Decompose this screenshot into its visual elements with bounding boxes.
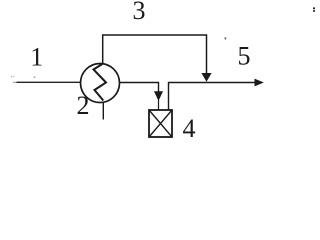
arrowhead: product stream 5 [255,79,264,87]
wire: exchanger bottom coolant stub [102,102,104,119]
svg-text:2: 2 [77,91,90,120]
label 4 (unit number) [183,114,196,143]
svg-text:1: 1 [30,43,43,72]
label 3 (stream number) [133,0,146,25]
svg-text:4: 4 [183,114,196,141]
arrowhead: stream 3 joining product line [201,73,211,82]
wire: exchanger outlet to drop into unit 4 [120,83,159,93]
wire: unit 4 outlet riser and product line 5 [169,83,257,111]
svg-text:3: 3 [133,0,146,25]
wire: stream 3 recycle (exchanger top, up, right, down) [103,35,207,75]
heat exchanger 2: circle body [81,64,120,103]
arrowhead: feed into unit 4 [154,91,163,101]
label 1 (stream number) [30,43,43,72]
specks near stream 1 start [11,76,35,78]
label 2 (exchanger number) [77,91,90,120]
speck artifact near line 3 [225,37,227,39]
unit 4: box with X [149,110,172,137]
cut-off text mark at right edge [313,7,315,11]
heat exchanger 2: internal zigzag coil [94,64,107,101]
label 5 (stream number) [238,42,251,71]
wire: stream 1 inlet line [13,81,81,83]
svg-text:5: 5 [238,42,251,71]
wire: stub from arrowhead to unit 4 top [158,100,160,110]
